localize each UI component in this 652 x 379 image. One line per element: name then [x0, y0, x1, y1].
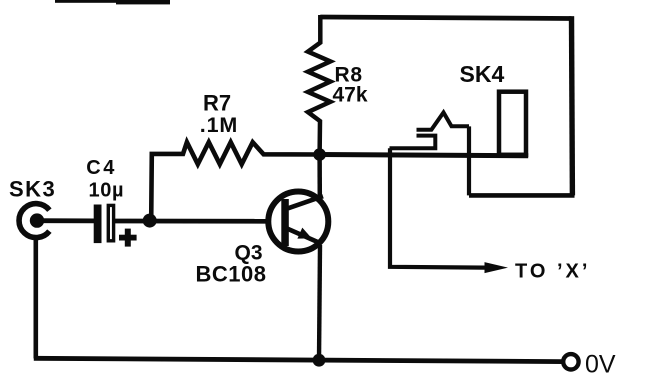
- svg-text:SK3: SK3: [9, 177, 56, 202]
- svg-text:.1M: .1M: [200, 113, 238, 137]
- svg-text:47k: 47k: [333, 84, 368, 107]
- svg-text:SK4: SK4: [460, 61, 505, 87]
- svg-text:BC108: BC108: [196, 262, 267, 287]
- svg-text:TO ’X’: TO ’X’: [515, 261, 590, 283]
- svg-text:10µ: 10µ: [89, 180, 125, 202]
- svg-text:C4: C4: [86, 157, 117, 179]
- svg-text:0V: 0V: [585, 351, 616, 379]
- svg-text:R7: R7: [203, 91, 231, 116]
